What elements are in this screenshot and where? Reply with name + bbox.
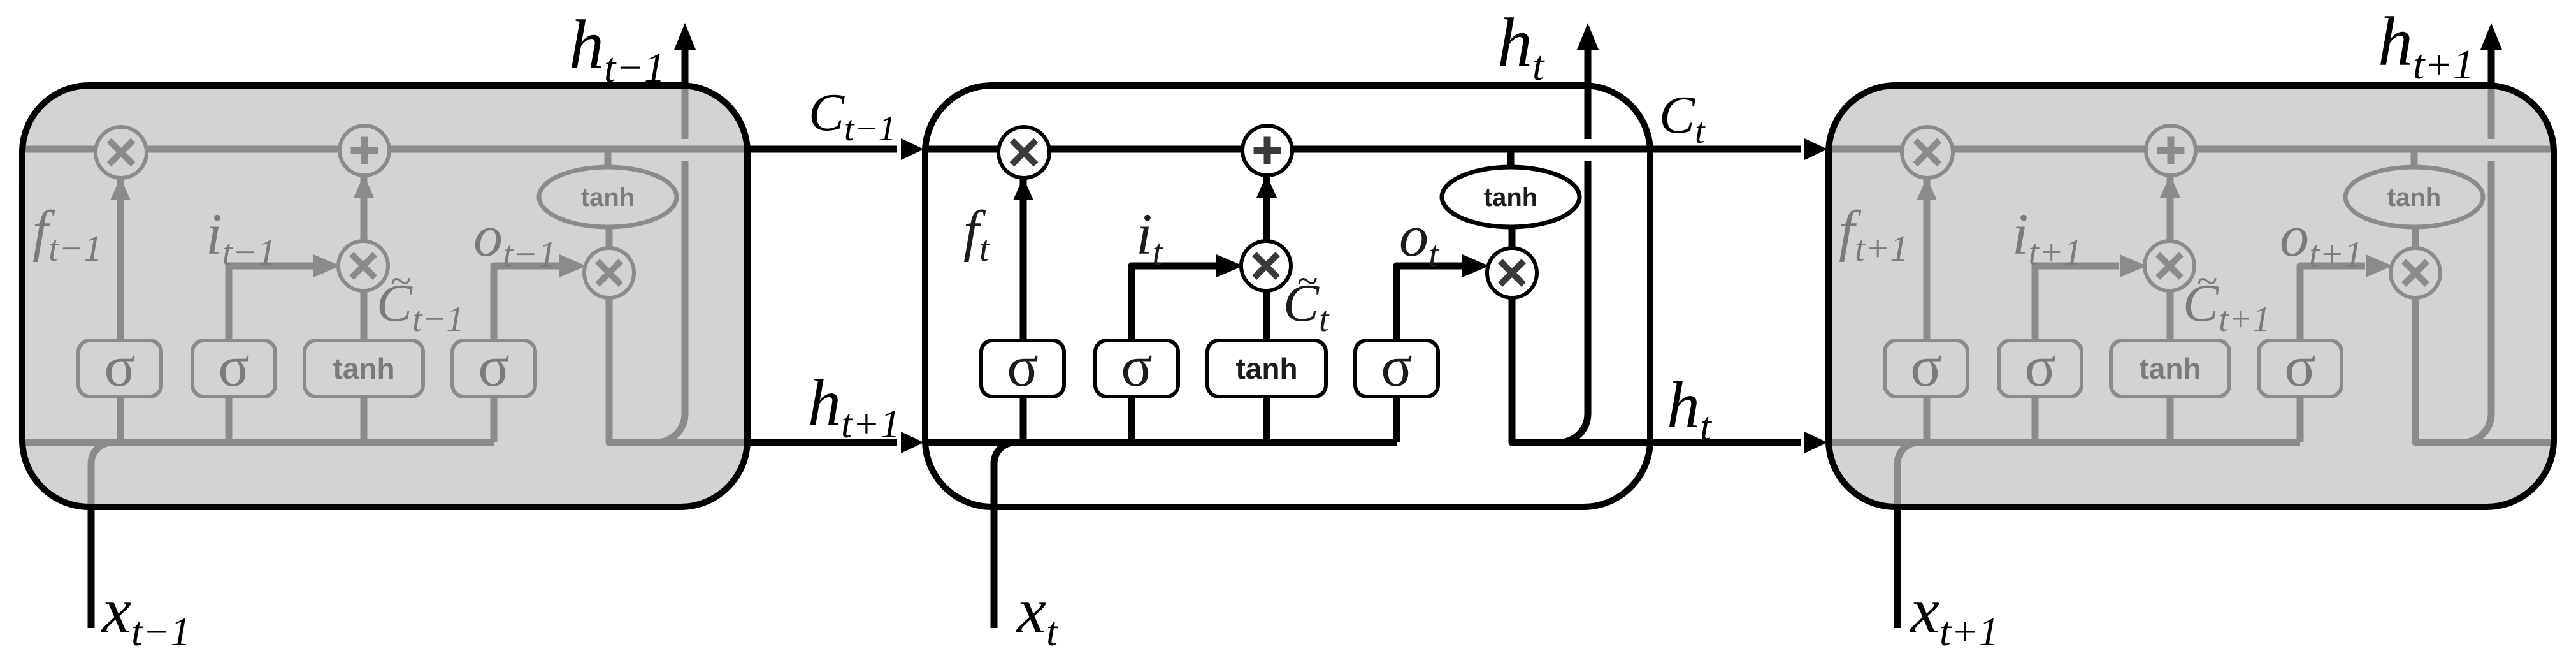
svg-text:σ: σ [218, 333, 250, 398]
wire tanh-ellipse to output-gate cell t+1 [2412, 226, 2419, 249]
svg-text:tanh: tanh [1484, 184, 1537, 212]
input gate multiply circle cell t-1 [338, 241, 388, 291]
wire i elbow cell t [1132, 254, 1243, 342]
wire h-up branch cell t-1 [656, 161, 685, 442]
cell t-1 border [22, 85, 747, 507]
output gate multiply circle cell t-1 [584, 248, 634, 298]
wire sigma-i to h-line cell t [1128, 395, 1135, 442]
label f cell t+1 [1839, 200, 1908, 269]
sigma-i box cell t+1 [1999, 333, 2082, 398]
wire tanh-box to h-line cell t-1 [361, 395, 368, 442]
wire h-up upper cell t+1 [2488, 85, 2495, 139]
label C-tilde cell t [1283, 260, 1330, 339]
label C_t-1 link [809, 83, 896, 149]
forget gate multiply circle cell t+1 [1902, 127, 1953, 178]
wire sigma-i to h-line cell t+1 [2032, 395, 2039, 442]
svg-text:tanh: tanh [2387, 184, 2441, 212]
svg-text:σ: σ [1121, 333, 1153, 398]
tanh ellipse cell t-1 [539, 167, 677, 227]
wire sigma-f to h-line cell t+1 [1924, 395, 1931, 442]
svg-text:σ: σ [1007, 333, 1039, 398]
wire tanh-box to input-gate cell t+1 [2167, 289, 2174, 342]
svg-text:~: ~ [1297, 260, 1318, 302]
cell t body (rounded rect) [925, 85, 1650, 507]
x input tail cell t [991, 508, 998, 628]
wire h-input cell t+1 [1829, 439, 2300, 446]
sigma-f box cell t-1 [78, 333, 161, 398]
wire tanh-box to input-gate cell t [1263, 289, 1270, 342]
sigma-o box cell t+1 [2259, 333, 2342, 398]
label f cell t-1 [32, 200, 102, 269]
wire tanh-ellipse to output-gate cell t-1 [606, 226, 613, 249]
x input tail cell t-1 [88, 508, 95, 628]
plus gate circle cell t+1 [2146, 126, 2196, 175]
output gate multiply circle cell t [1487, 248, 1537, 298]
input gate multiply circle cell t [1241, 241, 1291, 291]
output gate multiply circle cell t+1 [2391, 248, 2440, 298]
wire output-gate to h-out cell t+1 [2415, 296, 2554, 442]
svg-text:tanh: tanh [2139, 352, 2201, 385]
cell t border [925, 85, 1650, 507]
wire input-gate to plus cell t-1 [354, 174, 374, 242]
tanh ellipse cell t [1442, 167, 1579, 227]
x input tail cell t+1 [1894, 508, 1901, 628]
svg-text:~: ~ [2197, 260, 2217, 302]
h-up exit arrow cell t-1 [674, 23, 696, 87]
svg-text:~: ~ [391, 260, 411, 302]
sigma-i box cell t-1 [192, 333, 275, 398]
label C_t link [1659, 85, 1706, 151]
wire o elbow cell t-1 [494, 254, 586, 342]
sigma-f box cell t [981, 333, 1064, 398]
wire h link middle-to-right [1650, 432, 1827, 453]
wire sigma-o to h-line cell t [1393, 395, 1400, 442]
svg-text:tanh: tanh [581, 184, 635, 212]
wire input-gate to plus cell t+1 [2160, 174, 2180, 242]
wire sigma-f to forget-gate cell t [1013, 177, 1033, 342]
wire sigma-o to h-line cell t+1 [2297, 395, 2304, 442]
forget gate multiply circle cell t [998, 127, 1049, 178]
wire o elbow cell t+1 [2300, 254, 2393, 342]
cell t+1 border [1829, 85, 2554, 507]
plus gate circle cell t [1242, 126, 1292, 175]
wire h-up upper cell t [1585, 85, 1592, 139]
wire tanh-ellipse to output-gate cell t [1509, 226, 1516, 249]
wire C link left-to-middle [747, 138, 924, 160]
wire C link middle-to-right [1650, 138, 1827, 160]
label x_t bottom [1016, 574, 1059, 654]
label C-tilde cell t-1 [377, 260, 464, 339]
wire C-line to tanh-ellipse cell t-1 [605, 149, 612, 168]
wire o elbow cell t [1397, 254, 1489, 342]
label i cell t+1 [2012, 201, 2082, 273]
wire C-line cell t-1 [22, 146, 747, 153]
wire sigma-i to h-line cell t-1 [226, 395, 233, 442]
wire C-line to tanh-ellipse cell t+1 [2411, 149, 2418, 168]
sigma-o box cell t-1 [452, 333, 535, 398]
label f cell t [963, 200, 991, 269]
wire i elbow cell t-1 [229, 254, 340, 342]
wire C-line cell t+1 [1829, 146, 2554, 153]
wire tanh-box to h-line cell t [1263, 395, 1270, 442]
input gate multiply circle cell t+1 [2145, 241, 2194, 291]
wire output-gate to h-out cell t [1512, 296, 1650, 442]
wire sigma-f to h-line cell t-1 [117, 395, 124, 442]
wire output-gate to h-out cell t-1 [609, 296, 747, 442]
wire h-input cell t [925, 439, 1397, 446]
wire input-gate to plus cell t [1256, 174, 1277, 242]
wire sigma-f to forget-gate cell t+1 [1917, 177, 1937, 342]
cell t-1 body (rounded rect) [22, 85, 747, 507]
sigma-i box cell t [1095, 333, 1178, 398]
wire tanh-box to h-line cell t+1 [2167, 395, 2174, 442]
h-up exit arrow cell t [1577, 23, 1599, 87]
svg-text:σ: σ [1910, 333, 1942, 398]
svg-text:σ: σ [2284, 333, 2316, 398]
label o cell t+1 [2280, 203, 2363, 275]
svg-text:σ: σ [2024, 333, 2056, 398]
label x_t+1 bottom [1909, 574, 1999, 654]
sigma-f box cell t+1 [1885, 333, 1968, 398]
label o cell t-1 [473, 203, 556, 275]
h-up exit arrow cell t+1 [2480, 23, 2502, 87]
wire C-line cell t [925, 146, 1650, 153]
label h_t-1 top [569, 6, 665, 91]
svg-text:σ: σ [478, 333, 510, 398]
tanh box cell t [1207, 340, 1326, 397]
label h_t+1 top [2378, 3, 2474, 88]
wire h link left-to-middle [747, 432, 924, 453]
wire h-up upper cell t-1 [682, 85, 689, 139]
tanh box cell t+1 [2111, 340, 2229, 397]
wire h-input cell t-1 [22, 439, 494, 446]
wire x-input elbow cell t+1 [1897, 442, 1918, 507]
label h_t top [1497, 4, 1545, 89]
forget gate multiply circle cell t-1 [96, 127, 147, 178]
tanh ellipse cell t+1 [2345, 167, 2483, 227]
wire sigma-f to forget-gate cell t-1 [110, 177, 131, 342]
cell t+1 body (rounded rect) [1829, 85, 2554, 507]
wire h-up branch cell t [1559, 161, 1588, 442]
label i cell t [1136, 201, 1164, 273]
svg-text:σ: σ [104, 333, 136, 398]
label i cell t-1 [206, 201, 276, 273]
wire tanh-box to input-gate cell t-1 [361, 289, 368, 342]
wire sigma-f to h-line cell t [1020, 395, 1027, 442]
wire x-input elbow cell t-1 [91, 442, 112, 507]
sigma-o box cell t [1355, 333, 1438, 398]
wire x-input elbow cell t [994, 442, 1015, 507]
label o cell t [1399, 203, 1440, 275]
label C-tilde cell t+1 [2183, 260, 2270, 339]
tanh box cell t-1 [305, 340, 423, 397]
svg-text:tanh: tanh [333, 352, 394, 385]
wire sigma-o to h-line cell t-1 [491, 395, 498, 442]
plus gate circle cell t-1 [340, 126, 389, 175]
label h_t link [1667, 369, 1713, 449]
wire C-line to tanh-ellipse cell t [1507, 149, 1515, 168]
svg-text:σ: σ [1381, 333, 1413, 398]
label x_t-1 bottom [101, 574, 191, 654]
wire h-up branch cell t+1 [2463, 161, 2491, 442]
wire i elbow cell t+1 [2035, 254, 2147, 342]
svg-text:tanh: tanh [1235, 352, 1297, 385]
label h_t+1 link [808, 366, 900, 446]
